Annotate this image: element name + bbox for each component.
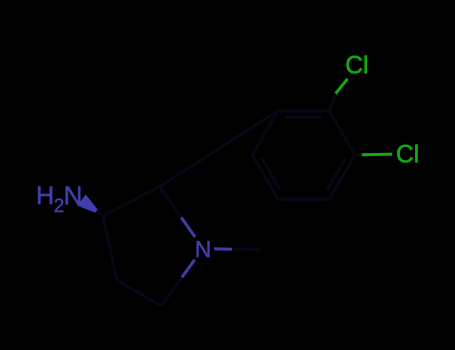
pyrrolidine ring: bond C2-C3 [103,187,160,217]
svg-text:N: N [64,181,83,211]
benzyl bond C2 to benzene C1' [160,111,279,187]
benzene double bond inner line (top) [285,116,322,119]
bond C3'-Cl green part [336,79,348,94]
bond C3'-Cl dark stub [329,93,336,111]
bond C2-N1 carbon half [160,187,182,218]
benzene edge C6'-C1' [252,155,278,199]
benzene edge C3'-C4' [329,111,355,155]
bond C2-N1 nitrogen half [181,218,195,238]
bond C4'-Cl dark stub [355,153,363,156]
benzene edge C5'-C6' (bottom) [278,198,329,201]
pyrrolidine ring: bond C4-C5 [117,280,162,306]
benzene double bond inner line (right) [327,158,346,190]
bond C5-N1 nitrogen half [182,260,195,278]
svg-text:Cl: Cl [396,142,419,169]
svg-text:H: H [36,182,54,210]
bond C5-N1 carbon half [161,277,182,306]
wedge bond C3 to NH2 (bright part) [77,194,97,212]
benzene edge C1'-C3'(top) [278,109,329,112]
svg-text:Cl: Cl [345,52,368,79]
pyrrolidine ring: bond C3-C4 [103,216,117,280]
benzene double bond inner line (lower left) [262,158,281,190]
bond C4'-Cl green part [362,153,392,157]
svg-text:N: N [195,236,212,262]
bond N1-CH3 carbon half [232,248,261,252]
benzene edge C1'-C2' [252,111,278,155]
wedge bond C3 tip (dark part) [95,210,103,216]
bond N1-CH3 nitrogen half [214,247,232,251]
benzene edge C4'-C5' [329,155,355,199]
